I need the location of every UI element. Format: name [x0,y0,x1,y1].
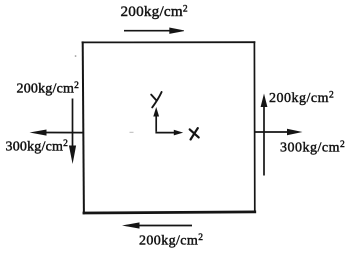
svg-text:200kg/cm2: 200kg/cm2 [139,233,203,248]
wire top edge [83,41,255,43]
arrow bottom shear (points left) [122,222,192,228]
arrow left shear (points down) [69,99,76,165]
wire left edge [83,42,84,213]
svg-text:200kg/cm2: 200kg/cm2 [17,81,80,96]
svg-text:200kg/cm2: 200kg/cm2 [269,91,334,106]
label X (handwritten) [190,128,199,139]
scan speck [130,132,134,133]
svg-text:200kg/cm2: 200kg/cm2 [121,3,188,20]
wire bottom edge [84,212,255,213]
arrow top shear (points right) [124,28,184,34]
square element (box) [83,42,255,213]
label Y (handwritten) [151,92,161,107]
scan speck [75,55,77,57]
wire right edge [253,42,255,212]
svg-text:300kg/cm2: 300kg/cm2 [6,139,69,154]
axis y arrow [153,107,159,132]
axis x arrow [155,130,183,136]
arrow right shear (points up) [261,94,268,176]
arrow left normal (points left) [30,130,84,136]
arrow right normal (points right) [255,129,303,135]
svg-text:300kg/cm2: 300kg/cm2 [280,140,345,155]
